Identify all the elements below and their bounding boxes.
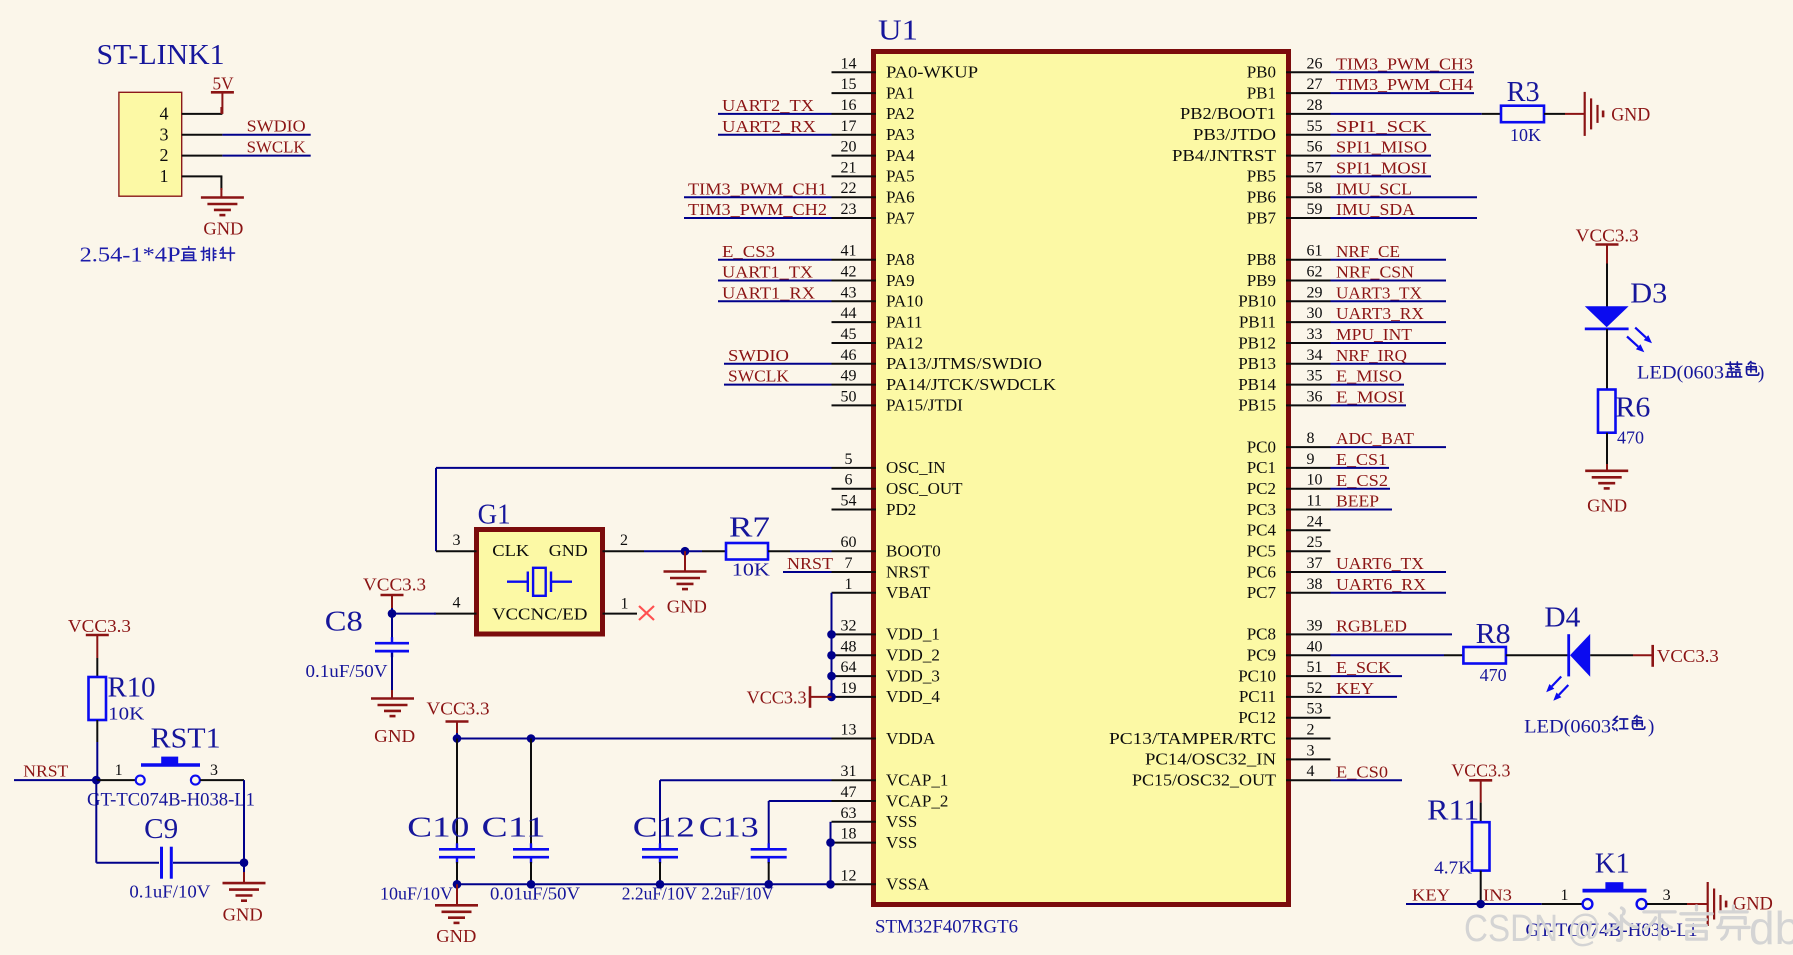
svg-text:61: 61 — [1307, 243, 1323, 260]
pin 20 (PA4) of U1 — [832, 155, 877, 157]
svg-text:4: 4 — [1307, 763, 1315, 780]
pin 9 (PC1) of U1 — [1286, 467, 1331, 469]
pin 56 (PB4/JNTRST) of U1 — [1286, 155, 1331, 157]
pin 12 (VSSA) of U1 — [832, 883, 877, 885]
pin 25 (PC5) of U1 — [1286, 550, 1331, 552]
svg-text:13: 13 — [841, 722, 857, 739]
svg-text:UART3_TX: UART3_TX — [1336, 283, 1422, 302]
pin 10 (PC2) of U1 — [1286, 488, 1331, 490]
wire VCC3.3 to VDDA — [456, 733, 458, 739]
watermark Chinese: never give up — [1606, 908, 1637, 940]
wire VCC3.3 to C8 node — [391, 608, 393, 614]
capacitor C9 — [96, 862, 159, 864]
svg-text:PB7: PB7 — [1247, 208, 1277, 227]
pin 17 (PA3) of U1 — [832, 134, 877, 136]
pin 31 (VCAP_1) of U1 — [832, 779, 877, 781]
wire D3 to R6 — [1606, 329, 1608, 390]
pin 21 (PA5) of U1 — [832, 175, 877, 177]
junction VDD_1 — [827, 630, 836, 639]
ground GND at R3 — [1584, 92, 1586, 136]
ground GND at R6 — [1585, 469, 1628, 472]
svg-text:VCC3.3: VCC3.3 — [1576, 226, 1639, 246]
svg-text:PB15: PB15 — [1238, 396, 1276, 415]
pin 47 (VCAP_2) of U1 — [832, 800, 877, 802]
wire to RST1 pin 1 — [96, 779, 135, 781]
svg-text:33: 33 — [1307, 326, 1323, 343]
svg-text:PA2: PA2 — [886, 104, 915, 123]
power VCC3.3 at D4 — [1651, 645, 1654, 667]
wire VCC3.3 to R11 — [1480, 803, 1482, 823]
resistor R7 — [726, 543, 768, 560]
svg-text:56: 56 — [1307, 139, 1323, 156]
svg-text:PC6: PC6 — [1247, 562, 1276, 581]
pin 57 (PB5) of U1 — [1286, 175, 1331, 177]
junction C9 right — [240, 858, 249, 867]
svg-text:NRST: NRST — [787, 554, 834, 573]
pin 22 (PA6) of U1 — [832, 196, 877, 198]
svg-text:PB10: PB10 — [1238, 292, 1276, 311]
pin 5 (OSC_IN) of U1 — [832, 467, 877, 469]
svg-text:CLK: CLK — [492, 541, 530, 560]
wire VCAP_1 to C12 — [660, 779, 832, 781]
pin 27 (PB1) of U1 — [1286, 92, 1331, 94]
pin 36 (PB15) of U1 — [1286, 404, 1331, 406]
wire VDD rail — [831, 593, 833, 697]
svg-text:SWCLK: SWCLK — [247, 138, 307, 157]
wire R3 to ground — [1544, 113, 1565, 115]
label Chinese: red color — [1613, 716, 1628, 730]
svg-text:PB2/BOOT1: PB2/BOOT1 — [1180, 104, 1276, 123]
svg-text:SPI1_MOSI: SPI1_MOSI — [1336, 159, 1427, 178]
svg-text:E_CS2: E_CS2 — [1336, 471, 1388, 490]
wire junction to G1 pin 4 — [392, 613, 436, 615]
ground GND at C10 — [456, 884, 458, 905]
capacitor C11 — [530, 739, 532, 845]
wire pin 1 to ground — [220, 176, 222, 190]
svg-text:C8: C8 — [325, 607, 363, 638]
pin 18 (VSS) of U1 — [832, 842, 877, 844]
svg-text:GND: GND — [203, 219, 243, 239]
svg-text:4: 4 — [453, 595, 461, 612]
junction at G1 pin 2 ground — [681, 547, 690, 556]
svg-text:BOOT0: BOOT0 — [886, 542, 941, 561]
svg-text:16: 16 — [841, 97, 857, 114]
svg-text:54: 54 — [841, 493, 857, 510]
svg-text:3: 3 — [453, 532, 461, 549]
svg-text:PA5: PA5 — [886, 167, 915, 186]
svg-text:10K: 10K — [1510, 125, 1541, 145]
pin 44 (PA11) of U1 — [832, 321, 877, 323]
wire C9 to ground — [243, 863, 245, 874]
pin 43 (PA10) of U1 — [832, 300, 877, 302]
svg-text:5: 5 — [845, 451, 853, 468]
svg-text:59: 59 — [1307, 201, 1323, 218]
pin 37 (PC6) of U1 — [1286, 571, 1331, 573]
svg-text:E_CS0: E_CS0 — [1336, 762, 1388, 781]
svg-text:1: 1 — [1561, 887, 1569, 904]
pin 16 (PA2) of U1 — [832, 113, 877, 115]
svg-text:470: 470 — [1617, 428, 1644, 448]
svg-text:R8: R8 — [1476, 619, 1511, 650]
svg-text:10K: 10K — [732, 560, 770, 580]
pin 58 (PB6) of U1 — [1286, 196, 1331, 198]
svg-text:55: 55 — [1307, 118, 1323, 135]
svg-text:VSS: VSS — [886, 812, 917, 831]
svg-text:KEY: KEY — [1412, 886, 1450, 905]
svg-text:10uF/10V: 10uF/10V — [380, 884, 453, 904]
svg-text:58: 58 — [1307, 180, 1323, 197]
svg-text:15: 15 — [841, 76, 857, 93]
svg-text:27: 27 — [1307, 76, 1323, 93]
pin 62 (PB9) of U1 — [1286, 280, 1331, 282]
svg-text:20: 20 — [841, 139, 857, 156]
svg-text:44: 44 — [841, 305, 857, 322]
svg-text:19: 19 — [841, 680, 857, 697]
svg-text:VSSA: VSSA — [886, 875, 930, 894]
svg-text:PC8: PC8 — [1247, 625, 1276, 644]
pin 32 (VDD_1) of U1 — [832, 633, 877, 635]
svg-text:62: 62 — [1307, 264, 1323, 281]
svg-text:PA15/JTDI: PA15/JTDI — [886, 396, 963, 415]
junction C11 bottom — [527, 880, 536, 889]
svg-text:42: 42 — [841, 264, 857, 281]
svg-text:VCC3.3: VCC3.3 — [68, 616, 131, 636]
svg-text:): ) — [1758, 363, 1764, 384]
ground GND at C8 — [371, 697, 414, 700]
wire K1 pin 3 to ground — [1647, 903, 1687, 905]
resistor R8 — [1463, 647, 1506, 664]
wire VCC3.3 to D3 — [1606, 264, 1608, 307]
junction VSS pin 18 — [826, 838, 835, 847]
pin 3 (PC14/OSC32_IN) of U1 — [1286, 758, 1331, 760]
svg-text:9: 9 — [1307, 451, 1315, 468]
svg-text:C11: C11 — [482, 813, 546, 844]
svg-text:UART1_RX: UART1_RX — [722, 283, 815, 302]
svg-text:G1: G1 — [478, 500, 511, 531]
svg-text:TIM3_PWM_CH1: TIM3_PWM_CH1 — [688, 179, 827, 198]
wire VCC3.3 to R10 — [96, 658, 98, 677]
resistor R3 — [1501, 106, 1544, 123]
svg-text:24: 24 — [1307, 513, 1323, 530]
junction VSSA bus — [826, 880, 835, 889]
capacitor C13 — [751, 848, 787, 851]
svg-text:PB11: PB11 — [1239, 312, 1276, 331]
svg-text:VCC3.3: VCC3.3 — [427, 699, 490, 719]
svg-text:3: 3 — [210, 762, 218, 779]
svg-text:29: 29 — [1307, 284, 1323, 301]
svg-text:MPU_INT: MPU_INT — [1336, 325, 1413, 344]
svg-text:VCC3.3: VCC3.3 — [747, 688, 807, 708]
pin 40 (PC9) of U1 — [1286, 654, 1331, 656]
svg-text:34: 34 — [1307, 347, 1323, 364]
pin 33 (PB12) of U1 — [1286, 342, 1331, 344]
svg-text:UART6_RX: UART6_RX — [1336, 575, 1426, 594]
svg-text:C12: C12 — [633, 813, 695, 844]
wire D4 to VCC3.3 — [1590, 654, 1633, 656]
svg-text:1: 1 — [845, 576, 853, 593]
svg-text:36: 36 — [1307, 388, 1323, 405]
svg-text:LED(0603: LED(0603 — [1637, 363, 1724, 384]
led D4 light arrows — [1552, 677, 1561, 687]
junction C10 bottom — [453, 880, 462, 889]
wire 5V to pin 4 — [220, 107, 222, 114]
svg-text:PB6: PB6 — [1247, 188, 1276, 207]
svg-text:R6: R6 — [1615, 393, 1650, 424]
svg-text:26: 26 — [1307, 55, 1323, 72]
junction C12 bottom — [656, 880, 665, 889]
svg-text:GND: GND — [374, 726, 415, 746]
pin 1 (VBAT) of U1 — [832, 592, 877, 594]
svg-text:21: 21 — [841, 159, 857, 176]
svg-text:NRF_IRQ: NRF_IRQ — [1336, 346, 1407, 365]
pin 50 (PA15/JTDI) of U1 — [832, 404, 877, 406]
pin 2 (PC13/TAMPER/RTC) of U1 — [1286, 738, 1331, 740]
svg-text:PB0: PB0 — [1247, 63, 1276, 82]
svg-text:49: 49 — [841, 368, 857, 385]
pin 15 (PA1) of U1 — [832, 92, 877, 94]
pin 59 (PB7) of U1 — [1286, 217, 1331, 219]
led D3 light arrows — [1635, 328, 1646, 338]
svg-text:CSDN @: CSDN @ — [1464, 908, 1601, 950]
svg-text:PC14/OSC32_IN: PC14/OSC32_IN — [1145, 750, 1276, 769]
svg-text:VCC: VCC — [492, 605, 530, 624]
svg-text:PA1: PA1 — [886, 83, 915, 102]
wire R8 to D4 — [1506, 654, 1568, 656]
svg-text:VDD_1: VDD_1 — [886, 625, 940, 644]
svg-text:PB5: PB5 — [1247, 167, 1276, 186]
wire NRST down to C9 — [95, 780, 97, 863]
no-connect X on G1 pin 1 — [639, 606, 654, 620]
wire pin 40 to R8 — [1331, 654, 1445, 656]
ground GND at G1 — [684, 551, 686, 571]
svg-text:GND: GND — [549, 541, 588, 560]
svg-text:25: 25 — [1307, 534, 1323, 551]
svg-text:SWDIO: SWDIO — [728, 346, 789, 365]
svg-text:TIM3_PWM_CH2: TIM3_PWM_CH2 — [688, 200, 827, 219]
svg-text:PC12: PC12 — [1238, 708, 1276, 727]
svg-text:R10: R10 — [108, 673, 156, 704]
svg-text:5V: 5V — [213, 74, 234, 94]
svg-text:VCAP_2: VCAP_2 — [886, 791, 948, 810]
svg-text:VCAP_1: VCAP_1 — [886, 771, 948, 790]
svg-text:28: 28 — [1307, 97, 1323, 114]
junction C10 top — [453, 734, 462, 743]
pin 39 (PC8) of U1 — [1286, 633, 1331, 635]
svg-text:R3: R3 — [1507, 77, 1540, 108]
junction VDD_2 — [827, 651, 836, 660]
svg-text:32: 32 — [841, 617, 857, 634]
capacitor C10 — [456, 739, 458, 845]
svg-text:E_CS1: E_CS1 — [1336, 450, 1387, 469]
svg-text:PB4/JNTRST: PB4/JNTRST — [1172, 146, 1277, 165]
svg-text:PB3/JTDO: PB3/JTDO — [1193, 125, 1276, 144]
svg-text:VDD_3: VDD_3 — [886, 666, 940, 685]
svg-text:4: 4 — [160, 104, 169, 124]
svg-text:RST1: RST1 — [151, 724, 221, 755]
svg-text:PB12: PB12 — [1238, 333, 1276, 352]
wire pin 28 to R3 — [1331, 113, 1482, 115]
resistor R10 — [89, 677, 107, 720]
svg-text:PA3: PA3 — [886, 125, 915, 144]
svg-text:IMU_SDA: IMU_SDA — [1336, 200, 1416, 219]
svg-text:ST-LINK1: ST-LINK1 — [97, 40, 225, 71]
svg-text:NRST: NRST — [886, 562, 930, 581]
wire RST1 pin 3 corner — [200, 779, 244, 781]
svg-text:E_MISO: E_MISO — [1336, 367, 1402, 386]
svg-text:VDDA: VDDA — [886, 729, 936, 748]
svg-text:60: 60 — [841, 534, 857, 551]
wire OSC_IN net — [436, 467, 832, 469]
pin 4 (PC15/OSC32_OUT) of U1 — [1286, 779, 1331, 781]
svg-text:PA9: PA9 — [886, 271, 915, 290]
svg-text:GND: GND — [223, 905, 263, 925]
svg-text:PC15/OSC32_OUT: PC15/OSC32_OUT — [1132, 771, 1277, 790]
svg-text:K1: K1 — [1595, 849, 1630, 880]
svg-text:VSS: VSS — [886, 833, 917, 852]
svg-text:0.01uF/50V: 0.01uF/50V — [490, 884, 580, 904]
junction VDD_4 — [827, 693, 836, 702]
svg-text:VDD_2: VDD_2 — [886, 646, 940, 665]
svg-text:GND: GND — [436, 926, 476, 946]
connector ST-LINK1 body — [119, 92, 182, 196]
svg-text:PC13/TAMPER/RTC: PC13/TAMPER/RTC — [1109, 729, 1276, 748]
wire to K1 pin 1 — [1542, 903, 1583, 905]
wire C10 to bus — [456, 862, 458, 884]
svg-text:GND: GND — [1611, 105, 1650, 126]
ground GND at K1 — [1707, 882, 1709, 926]
svg-text:IMU_SCL: IMU_SCL — [1336, 179, 1412, 198]
pin 24 (PC4) of U1 — [1286, 529, 1331, 531]
svg-text:50: 50 — [841, 388, 857, 405]
svg-text:GND: GND — [667, 597, 707, 617]
wire C13 to bus — [768, 862, 770, 884]
svg-text:2.54-1*4P: 2.54-1*4P — [80, 243, 181, 267]
switch K1 — [1583, 899, 1593, 909]
svg-text:PA10: PA10 — [886, 292, 923, 311]
mcu U1 body — [874, 52, 1289, 905]
svg-text:ADC_BAT: ADC_BAT — [1336, 429, 1415, 448]
junction VDD_3 — [827, 672, 836, 681]
svg-text:40: 40 — [1307, 638, 1323, 655]
svg-text:52: 52 — [1307, 680, 1323, 697]
pin 55 (PB3/JTDO) of U1 — [1286, 134, 1331, 136]
svg-text:46: 46 — [841, 347, 857, 364]
pin 48 (VDD_2) of U1 — [832, 654, 877, 656]
pin 30 (PB11) of U1 — [1286, 321, 1331, 323]
led D4 — [1567, 634, 1570, 676]
wire R7 to pin 60 — [768, 550, 790, 552]
svg-text:PA12: PA12 — [886, 333, 923, 352]
resistor R6 — [1598, 390, 1616, 433]
svg-text:UART2_RX: UART2_RX — [722, 117, 816, 136]
svg-text:R7: R7 — [729, 513, 770, 544]
svg-text:PB13: PB13 — [1238, 354, 1276, 373]
svg-text:PA11: PA11 — [886, 312, 923, 331]
svg-text:U1: U1 — [878, 16, 918, 47]
svg-text:VCC3.3: VCC3.3 — [1451, 761, 1510, 781]
svg-text:C13: C13 — [699, 813, 759, 844]
pin 23 (PA7) of U1 — [832, 217, 877, 219]
crystal icon inside G1 — [507, 568, 572, 596]
pin 35 (PB14) of U1 — [1286, 384, 1331, 386]
svg-text:C9: C9 — [144, 814, 178, 845]
svg-text:39: 39 — [1307, 617, 1323, 634]
svg-text:OSC_OUT: OSC_OUT — [886, 479, 963, 498]
svg-text:E_SCK: E_SCK — [1336, 658, 1392, 677]
svg-text:PC9: PC9 — [1247, 646, 1276, 665]
wire R11 to KEY node — [1480, 871, 1482, 904]
svg-text:PA14/JTCK/SWDCLK: PA14/JTCK/SWDCLK — [886, 375, 1057, 394]
svg-text:1: 1 — [160, 166, 169, 186]
wire R10 to NRST node — [96, 720, 98, 742]
svg-text:41: 41 — [841, 243, 857, 260]
svg-text:12: 12 — [841, 867, 857, 884]
ground GND at ST-LINK — [201, 196, 244, 199]
svg-text:LED(0603: LED(0603 — [1524, 717, 1611, 738]
svg-text:VBAT: VBAT — [886, 583, 931, 602]
pin 60 (BOOT0) of U1 — [832, 550, 877, 552]
pin 38 (PC7) of U1 — [1286, 592, 1331, 594]
svg-text:PB8: PB8 — [1247, 250, 1276, 269]
svg-text:PC3: PC3 — [1247, 500, 1276, 519]
svg-text:UART1_TX: UART1_TX — [722, 263, 813, 282]
svg-text:PA13/JTMS/SWDIO: PA13/JTMS/SWDIO — [886, 354, 1042, 373]
pin 19 (VDD_4) of U1 — [832, 696, 877, 698]
pin 51 (PC10) of U1 — [1286, 675, 1331, 677]
svg-text:14: 14 — [841, 55, 857, 72]
pin 46 (PA13/JTMS/SWDIO) of U1 — [832, 363, 877, 365]
pin 34 (PB13) of U1 — [1286, 363, 1331, 365]
junction C13 bottom — [764, 880, 773, 889]
svg-text:GT-TC074B-H038-L1: GT-TC074B-H038-L1 — [87, 790, 255, 811]
svg-text:23: 23 — [841, 201, 857, 218]
svg-text:17: 17 — [841, 118, 857, 135]
wire G1 pin 2 to junction — [644, 550, 702, 552]
svg-text:0.1uF/50V: 0.1uF/50V — [306, 661, 388, 681]
svg-text:SPI1_MISO: SPI1_MISO — [1336, 138, 1427, 157]
capacitor C8 — [391, 614, 393, 641]
svg-text:PB14: PB14 — [1238, 375, 1276, 394]
svg-text:7: 7 — [845, 555, 853, 572]
wire C8 to ground — [391, 653, 393, 692]
svg-text:UART6_TX: UART6_TX — [1336, 554, 1424, 573]
junction KEY/R11/K1 — [1476, 900, 1485, 909]
svg-text:31: 31 — [841, 763, 857, 780]
svg-text:NRST: NRST — [23, 762, 69, 781]
capacitor C12 — [642, 848, 678, 851]
svg-text:2: 2 — [160, 145, 169, 165]
svg-text:PC1: PC1 — [1247, 458, 1276, 477]
svg-text:10K: 10K — [108, 704, 144, 724]
svg-text:PA6: PA6 — [886, 188, 915, 207]
junction C11 top — [527, 734, 536, 743]
svg-text:4.7K: 4.7K — [1434, 858, 1472, 878]
svg-text:NRF_CSN: NRF_CSN — [1336, 263, 1414, 282]
svg-text:KEY: KEY — [1336, 679, 1374, 698]
svg-text:dbb: dbb — [1749, 902, 1793, 954]
pin 13 (VDDA) of U1 — [832, 738, 877, 740]
pin 7 (NRST) of U1 — [832, 571, 877, 573]
svg-text:D4: D4 — [1544, 603, 1580, 634]
svg-text:11: 11 — [1307, 493, 1322, 510]
svg-text:18: 18 — [841, 826, 857, 843]
svg-text:PC7: PC7 — [1247, 583, 1277, 602]
label Chinese: blue color — [1726, 362, 1742, 377]
svg-text:VDD_4: VDD_4 — [886, 687, 940, 706]
svg-text:PC4: PC4 — [1247, 521, 1277, 540]
svg-text:TIM3_PWM_CH4: TIM3_PWM_CH4 — [1336, 75, 1474, 94]
svg-text:470: 470 — [1480, 665, 1507, 685]
